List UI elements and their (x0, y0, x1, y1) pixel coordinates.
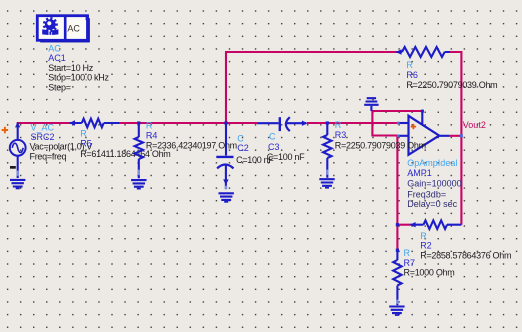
junction at R7 top node (396, 249, 399, 252)
wire ground to op-amp top pin (371, 110, 422, 112)
R5 labels (80, 129, 170, 159)
pin marker op-amp minus input (397, 135, 400, 138)
wire op-amp output (449, 135, 461, 137)
svg-text:Start=10 Hz: Start=10 Hz (48, 63, 93, 73)
wire ground down to inverting input (372, 111, 398, 136)
svg-text:Vout2: Vout2 (463, 120, 486, 130)
AC controller labels (48, 44, 109, 93)
resistor R6 (396, 47, 450, 57)
node Vout2 (463, 120, 486, 130)
svg-text:R4: R4 (146, 130, 158, 140)
R2 labels (420, 231, 511, 260)
junction at output node (460, 134, 463, 137)
svg-text:R: R (80, 129, 87, 139)
wire feedback from R6 down to output and R2 (450, 52, 461, 225)
svg-text:R: R (420, 231, 427, 241)
R3 labels (335, 120, 426, 151)
svg-text:Freq=freq: Freq=freq (30, 151, 67, 161)
svg-text:C: C (237, 134, 244, 144)
wire feedback riser at node C2 (225, 52, 227, 123)
svg-text:R: R (406, 60, 413, 70)
svg-text:R=2250.79079039 Ohm: R=2250.79079039 Ohm (335, 141, 426, 151)
svg-text:R: R (146, 120, 153, 130)
resistor R2 (410, 220, 462, 229)
svg-text:R=2250.79079039 Ohm: R=2250.79079039 Ohm (406, 80, 497, 90)
capacitor C3 (257, 117, 308, 131)
svg-text:R: R (404, 248, 411, 258)
wire main: source to R5 (17, 122, 70, 124)
svg-text:Freq3db=: Freq3db= (407, 190, 446, 200)
svg-text:R=1000 Ohm: R=1000 Ohm (404, 268, 455, 278)
svg-text:Delay=0 sec: Delay=0 sec (407, 199, 457, 209)
svg-text:AC: AC (48, 44, 61, 54)
svg-text:Step=: Step= (48, 82, 70, 92)
C3 labels (267, 132, 305, 163)
R7 labels (404, 248, 455, 278)
pin marker op-amp plus input (397, 122, 400, 125)
capacitor C2 (216, 123, 233, 189)
wire divider node to R2 (397, 224, 410, 226)
svg-text:R=2336.42340197 Ohm: R=2336.42340197 Ohm (146, 141, 237, 151)
junction at C2/feedback node (224, 121, 227, 124)
svg-text:V_AC: V_AC (31, 123, 55, 133)
svg-text:R2: R2 (420, 241, 432, 251)
wire feedback top run to R6 (225, 51, 397, 53)
wire inverting input down to divider (396, 136, 398, 250)
AC simulation controller icon box (37, 15, 90, 42)
ground below C2 (219, 193, 234, 202)
resistor R5 (69, 119, 120, 128)
wire main: C3 to op-amp input (307, 122, 399, 124)
junction at divider R2 node (396, 223, 399, 226)
plus marker SRC2 (2, 127, 8, 133)
svg-text:R6: R6 (406, 70, 418, 80)
svg-text:Stop=100.0 kHz: Stop=100.0 kHz (48, 73, 109, 83)
svg-text:R=2858.57864376 Ohm: R=2858.57864376 Ohm (420, 250, 511, 260)
C2 labels (236, 134, 274, 165)
svg-text:R7: R7 (404, 258, 416, 268)
svg-text:AMP1: AMP1 (407, 168, 432, 178)
resistor R3 (323, 123, 331, 178)
svg-text:AC1: AC1 (48, 53, 66, 63)
svg-text:C=100 nF: C=100 nF (267, 152, 305, 162)
AMP1 labels (407, 158, 461, 209)
op-amp U1 AMP1 (398, 110, 449, 155)
ground below R7 (389, 307, 404, 316)
AC voltage source SRC2 (10, 122, 26, 178)
SRC2 labels (30, 123, 93, 162)
R4 labels (146, 120, 237, 150)
svg-text:C3: C3 (268, 142, 280, 152)
svg-text:C2: C2 (237, 143, 249, 153)
ground below SRC2 (10, 180, 25, 189)
svg-text:AC: AC (67, 23, 80, 33)
svg-text:SRC2: SRC2 (31, 132, 55, 142)
junction at R4 node (137, 121, 140, 124)
svg-text:OpAmpIdeal: OpAmpIdeal (407, 158, 457, 168)
resistor R4 (135, 123, 143, 178)
svg-text:R: R (335, 120, 342, 130)
wire main: R5 to C3 (120, 122, 257, 124)
ground above op-amp (flipped) (364, 98, 378, 111)
svg-text:C: C (269, 132, 276, 142)
minus marker SRC2 (10, 166, 16, 169)
ground below R4 (131, 180, 146, 189)
junction at R3 node (326, 121, 329, 124)
svg-text:Gain=100000: Gain=100000 (407, 179, 461, 189)
ground below R3 (319, 179, 334, 188)
R6 labels (406, 60, 497, 90)
svg-text:R3: R3 (335, 130, 347, 140)
svg-text:R5: R5 (80, 139, 92, 149)
resistor R7 (393, 250, 401, 305)
